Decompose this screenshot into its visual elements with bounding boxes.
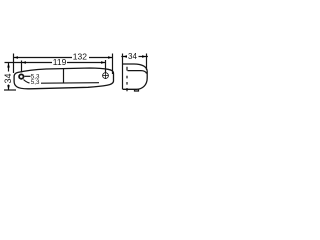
svg-text:34: 34 [128,52,137,61]
svg-text:34: 34 [3,73,13,83]
svg-text:5,3: 5,3 [31,79,40,86]
svg-text:119: 119 [53,57,67,67]
svg-text:132: 132 [73,51,87,61]
